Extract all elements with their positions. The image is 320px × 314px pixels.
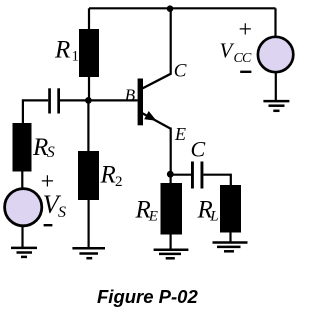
ground RL (213, 243, 248, 252)
wire output cap to RL (203, 175, 230, 186)
resistor R1 (79, 29, 99, 77)
wire collector to top rail (170, 8, 172, 75)
wire VS to ground (21, 226, 23, 248)
svg-text:B: B (125, 85, 136, 104)
wire input cap left lead to RS (23, 100, 48, 123)
wire RE to ground (170, 235, 172, 250)
svg-text:1: 1 (72, 49, 80, 65)
node collector at top rail (167, 5, 174, 12)
svg-text:CC: CC (234, 51, 253, 66)
svg-text:L: L (209, 209, 218, 225)
capacitor C input coupling (48, 88, 60, 113)
svg-text:E: E (148, 209, 158, 225)
resistor RE (161, 183, 183, 235)
capacitor C output coupling (191, 162, 203, 189)
resistor R2 (78, 151, 99, 200)
wire R1 bottom to base node (88, 77, 90, 100)
label - (VCC) (240, 71, 251, 73)
wire base node to R2 (87, 100, 89, 151)
ground RE (154, 250, 189, 259)
label - (VS) (44, 224, 53, 226)
svg-text:S: S (47, 144, 55, 161)
wire VCC to ground (275, 73, 277, 101)
ground R2 (72, 248, 105, 258)
node emitter junction (167, 171, 174, 178)
svg-text:+: + (239, 17, 253, 43)
source VCC (258, 37, 293, 72)
node base junction (85, 97, 92, 104)
wire R2 to ground (87, 200, 89, 248)
wire top rail (89, 7, 276, 9)
wire emitter down (170, 128, 172, 175)
svg-text:E: E (174, 124, 186, 144)
transistor Q1 NPN (138, 74, 171, 129)
wire RS to VS (21, 172, 23, 189)
svg-text:C: C (191, 136, 206, 161)
svg-text:R: R (54, 37, 70, 64)
wire emitter node to RE (170, 174, 172, 184)
wire R1 top to rail (88, 8, 90, 30)
wire input cap to base node (60, 99, 89, 101)
wire base node to transistor base (88, 99, 137, 101)
wire top rail to VCC (274, 8, 276, 36)
resistor RS (13, 123, 32, 172)
wire RL to ground (229, 233, 231, 243)
svg-text:R: R (100, 162, 116, 189)
svg-text:S: S (58, 204, 66, 221)
svg-text:2: 2 (115, 174, 123, 190)
resistor RL (220, 185, 241, 233)
svg-text:Figure P-02: Figure P-02 (97, 286, 198, 307)
ground VS (11, 248, 37, 257)
ground VCC (263, 101, 289, 111)
source VS (5, 189, 42, 226)
wire emitter node to output cap (170, 174, 191, 176)
svg-text:V: V (220, 38, 235, 62)
svg-text:C: C (174, 61, 187, 82)
